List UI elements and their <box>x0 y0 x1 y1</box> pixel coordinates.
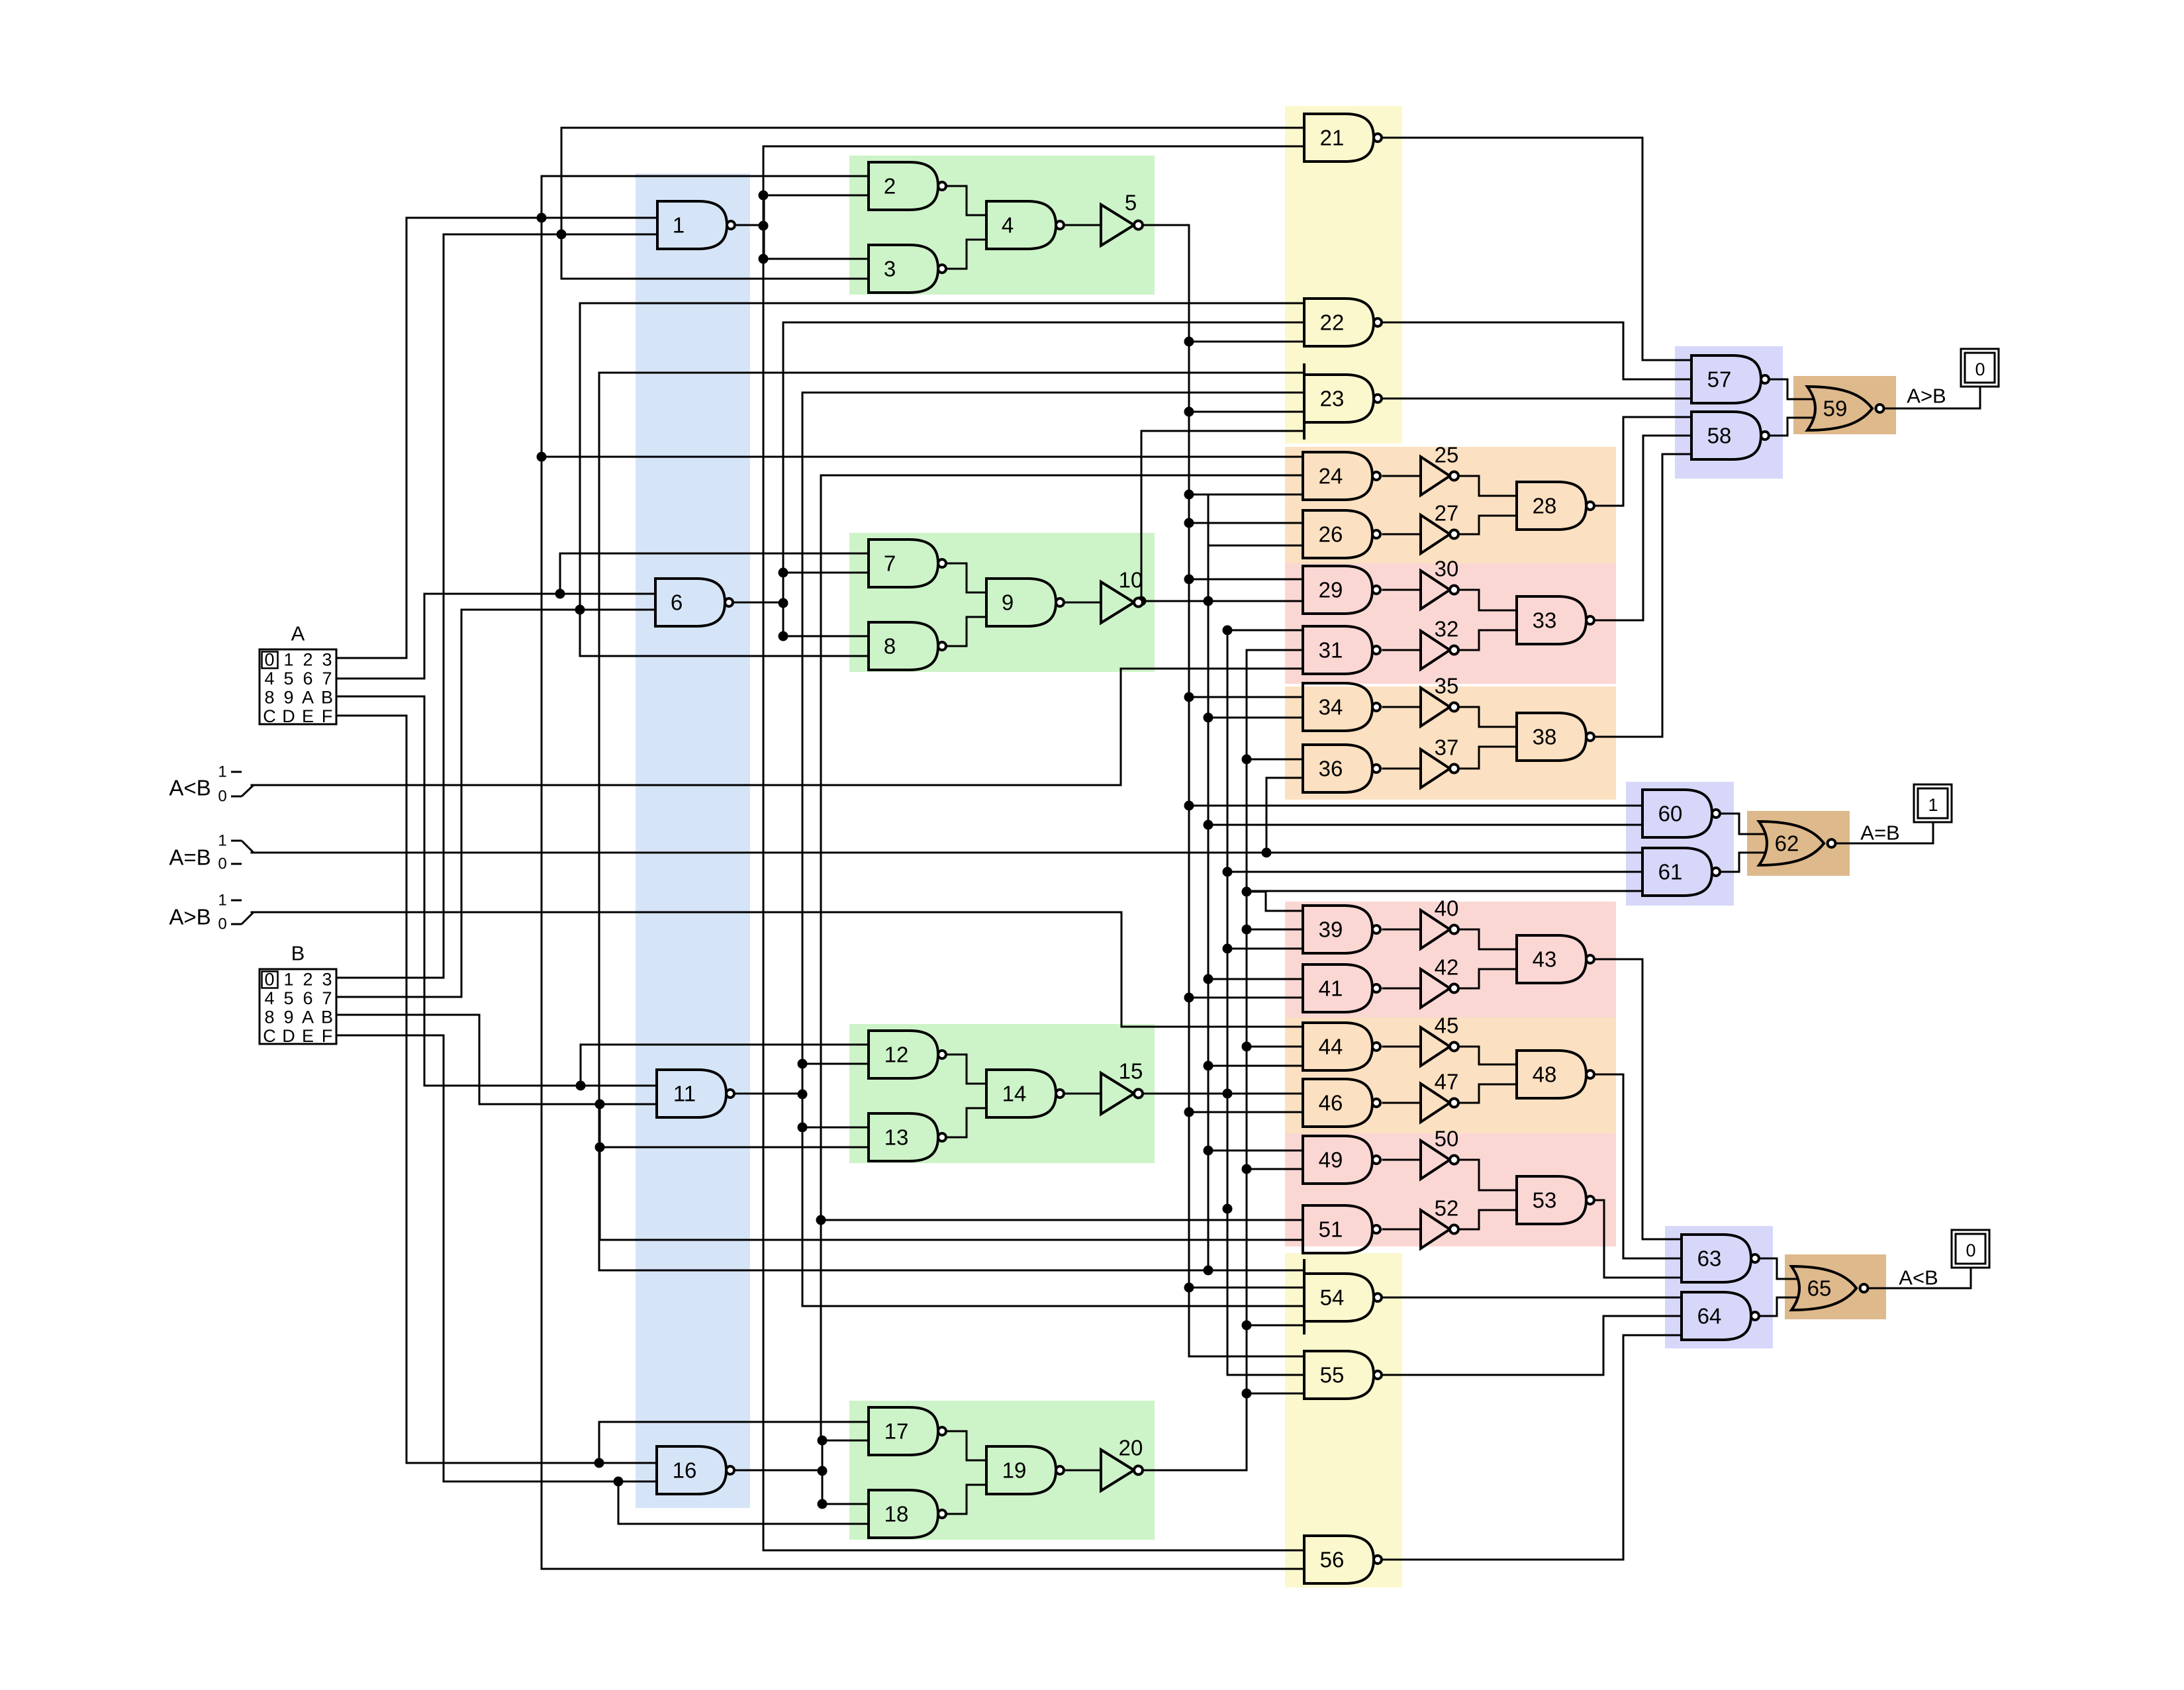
nand gate 6 <box>655 579 733 626</box>
wire bus eq3 (inv 5) <box>1188 225 1190 1356</box>
wire group 24-28 upper inverter jog to combiner <box>1457 476 1517 496</box>
wire bus eq2 (inv 10) <box>1208 494 1210 1270</box>
wire group 24-28 lower inverter jog to combiner <box>1457 516 1517 534</box>
input switch A&lt;B <box>169 763 254 806</box>
wire group 24-28 upper NAND output to inverter <box>1383 475 1421 477</box>
wire combiner output to inverter <box>1062 1470 1101 1472</box>
nand gate 28 <box>1517 482 1594 530</box>
svg-text:9: 9 <box>283 688 293 708</box>
wire wire to gate 55 input 3 <box>1247 1393 1303 1395</box>
svg-text:15: 15 <box>1119 1059 1143 1084</box>
svg-text:57: 57 <box>1707 367 1732 392</box>
wire net gate1-out long vertical (to 21/24/56) <box>763 146 765 1550</box>
nand gate 16 <box>657 1446 734 1494</box>
svg-text:F: F <box>322 706 333 726</box>
inverter gate 15 <box>1101 1059 1143 1115</box>
wire gate 21 output to gate 57 input 1 <box>1382 138 1691 360</box>
nand gate 31 <box>1303 626 1380 674</box>
svg-text:28: 28 <box>1533 494 1557 518</box>
svg-text:11: 11 <box>673 1082 696 1106</box>
wire wire to gate 34 input 2 <box>1208 717 1303 719</box>
nor gate 62 <box>1759 822 1836 865</box>
wire gate 58 output to gate 59 input 2 <box>1769 418 1812 436</box>
wire net B1 to gate 11 input 2 <box>479 1103 657 1105</box>
wire group 49-53 lower NAND output to inverter <box>1383 1229 1421 1231</box>
wire gate 63 output to gate 65 input 1 <box>1759 1258 1796 1279</box>
wire wire to gate 24 input 2 <box>821 475 1303 477</box>
region purple 3 (gates 63-64) <box>1665 1226 1773 1348</box>
svg-text:D: D <box>282 1026 295 1046</box>
wire net A2 branch <box>559 553 561 594</box>
wire wire to gate 22 input 1 <box>580 303 1304 305</box>
wire wire to gate 39 input 3 <box>1227 948 1303 950</box>
wire slice 4 link to lower gate input 1 <box>822 1503 869 1505</box>
wire net B0 branch <box>618 1481 620 1524</box>
nand gate 34 <box>1303 683 1380 731</box>
wire gate 64 output to gate 65 input 2 <box>1759 1297 1796 1316</box>
wire group 29-33 lower NAND output to inverter <box>1383 649 1421 651</box>
wire net B3 branch <box>561 128 563 279</box>
inverter gate 52 <box>1421 1196 1458 1249</box>
nand gate 51 <box>1303 1205 1380 1253</box>
svg-text:5: 5 <box>1125 191 1137 215</box>
wire net A3 to gate 56 input 2 <box>542 1568 1304 1570</box>
wire slice 3 link to upper gate input 2 <box>802 1063 869 1065</box>
nand gate 53 <box>1517 1176 1594 1224</box>
wire wire to gate 23 input 4 <box>1141 430 1304 432</box>
wire net B1 to gate 13 input 2 <box>600 1147 869 1149</box>
nand gate 24 <box>1303 452 1380 500</box>
wire net A>B dropper <box>1121 912 1123 1027</box>
wire wire to gate 24 input 3 <box>1189 494 1303 496</box>
wire gate 57 output to gate 59 input 1 <box>1769 379 1812 399</box>
svg-text:3: 3 <box>884 257 896 281</box>
nand gate 26 <box>1303 510 1380 558</box>
svg-text:2: 2 <box>303 970 312 990</box>
wire slice 4 link vertical <box>822 1440 824 1504</box>
wire keypad A row4 to net A0 <box>336 716 406 1463</box>
wire wire to gate 49 input 2 <box>1247 1168 1303 1170</box>
wire wire to gate 24 input 1 <box>542 456 1303 458</box>
svg-text:38: 38 <box>1533 725 1557 749</box>
wire wire to gate 61 input 3 <box>1247 890 1642 892</box>
nand gate 46 <box>1303 1079 1380 1127</box>
svg-text:0: 0 <box>1975 359 1985 379</box>
nand gate 17 <box>869 1407 946 1455</box>
svg-text:50: 50 <box>1435 1127 1459 1151</box>
svg-text:17: 17 <box>884 1419 909 1444</box>
wire wire to gate 31 input 1 <box>1227 630 1303 632</box>
nand gate 8 <box>869 622 946 670</box>
wire gate 1 output stub <box>732 224 764 226</box>
wire bus eq1 (inv 15) <box>1227 630 1229 1375</box>
wire wire to gate 44 input 2 <box>1247 1046 1303 1048</box>
svg-text:23: 23 <box>1320 387 1345 411</box>
wire wire to gate 49 input 1 <box>1208 1150 1303 1152</box>
svg-text:1: 1 <box>218 763 226 781</box>
inverter gate 45 <box>1421 1013 1458 1066</box>
svg-text:3: 3 <box>322 970 332 990</box>
region purple 2 (gates 60-61) <box>1626 782 1734 906</box>
wire gate 54 output to gate 64 input 1 <box>1382 1297 1682 1299</box>
nand gate 60 <box>1642 790 1720 837</box>
wire gate 55 output to gate 64 input 2 <box>1382 1316 1682 1375</box>
wire wire to gate 51 input 1 <box>821 1219 1303 1221</box>
svg-text:30: 30 <box>1435 557 1459 581</box>
wire keypad A row2 to net A2 <box>336 594 424 679</box>
svg-text:0: 0 <box>1966 1241 1975 1260</box>
nand gate 19 <box>986 1446 1064 1494</box>
wire lower gate output jog <box>943 617 986 646</box>
wire wire to gate 39 input 2 <box>1247 929 1303 931</box>
svg-text:0: 0 <box>264 970 274 990</box>
nand gate 7 <box>869 540 946 587</box>
inverter gate 47 <box>1421 1070 1458 1123</box>
svg-text:A<B: A<B <box>169 776 211 800</box>
svg-text:0: 0 <box>218 855 226 873</box>
region pink group 1 (gates 29-33) <box>1285 563 1616 684</box>
wire wire to gate 34 input 1 <box>1189 696 1303 698</box>
svg-text:34: 34 <box>1319 695 1343 720</box>
nor gate 65 <box>1791 1266 1868 1310</box>
input keypad B <box>260 942 336 1047</box>
region green group 3 (gates 12-15) <box>849 1024 1155 1163</box>
nand gate 11 <box>657 1070 734 1117</box>
wire net B2 to gate 6 input 2 <box>461 609 655 611</box>
wire keypad B row4 to net B0 <box>336 1035 444 1481</box>
wire gate 23 output to gate 57 input 3 <box>1378 398 1691 400</box>
svg-text:C: C <box>263 1026 276 1046</box>
wire net A1 branch <box>580 1045 582 1086</box>
wire net A<B switch wire <box>252 784 1121 786</box>
wire vertical feed gate 23 input 1 / gate 54 input 1 <box>598 373 600 1270</box>
wire combiner output to inverter <box>1062 224 1101 226</box>
svg-text:D: D <box>282 706 295 726</box>
svg-text:9: 9 <box>1002 590 1014 615</box>
wire group 39-43 upper NAND output to inverter <box>1383 929 1421 931</box>
svg-text:2: 2 <box>884 174 896 199</box>
region brown 2 (gate 62) <box>1747 811 1850 876</box>
nand gate 1 <box>657 201 735 249</box>
wire wire to gate 54 input 3 <box>802 1305 1304 1307</box>
wire wire to gate 22 input 2 <box>783 322 1304 324</box>
region yellow bottom (gates 54-56) <box>1285 1253 1402 1587</box>
inverter gate 27 <box>1421 501 1458 554</box>
svg-text:6: 6 <box>303 669 312 688</box>
svg-text:63: 63 <box>1697 1246 1722 1271</box>
svg-text:1: 1 <box>218 832 226 850</box>
svg-text:36: 36 <box>1319 757 1343 781</box>
wire net A<B riser <box>1120 669 1122 785</box>
wire net B2 to gate 8 input 2 <box>580 655 869 657</box>
wire inverter 20 output wire <box>1143 1470 1247 1472</box>
wire wire to gate 61 input 2 <box>1227 871 1642 873</box>
nand gate 54 <box>1304 1259 1382 1335</box>
wire keypad A row1 to net A3 <box>336 218 406 658</box>
wire group 34-38 upper inverter jog to combiner <box>1457 707 1517 727</box>
inverter gate 25 <box>1421 443 1458 496</box>
svg-text:12: 12 <box>884 1043 909 1067</box>
wire combiner output to inverter <box>1062 1093 1101 1095</box>
svg-text:24: 24 <box>1319 464 1343 489</box>
nand gate 63 <box>1682 1235 1759 1282</box>
inverter gate 10 <box>1101 568 1143 624</box>
svg-text:2: 2 <box>303 650 312 670</box>
wire wire to gate 55 input 1 <box>1189 1356 1303 1358</box>
wire slice 3 link to lower gate input 1 <box>802 1127 869 1129</box>
svg-text:13: 13 <box>884 1125 909 1150</box>
svg-text:47: 47 <box>1435 1070 1459 1094</box>
region orange group 2 (gates 34-38) <box>1285 686 1616 800</box>
wire net gate11-out vertical to 23 <box>802 393 804 1306</box>
wire gate 53 output to gate 63 input 3 <box>1595 1200 1682 1278</box>
wire gate 56 output to gate 64 input 3 <box>1382 1335 1682 1560</box>
svg-text:20: 20 <box>1119 1436 1143 1460</box>
input switch A&gt;B <box>169 892 254 933</box>
nand gate 49 <box>1303 1136 1380 1184</box>
wire group 44-48 upper NAND output to inverter <box>1383 1046 1421 1048</box>
svg-text:4: 4 <box>1002 213 1014 238</box>
wire wire to gate 21 input 2 <box>764 146 1304 148</box>
wire slice 2 link to upper gate input 2 <box>783 572 869 574</box>
svg-text:9: 9 <box>283 1008 293 1027</box>
svg-text:4: 4 <box>264 988 274 1008</box>
svg-text:49: 49 <box>1319 1148 1343 1172</box>
wire group 34-38 lower inverter jog to combiner <box>1457 747 1517 769</box>
region orange group 1 (gates 24-28) <box>1285 447 1616 563</box>
label A&lt;B output <box>1899 1266 1938 1290</box>
svg-text:A: A <box>291 622 305 645</box>
svg-text:1: 1 <box>673 213 685 238</box>
wire wire eq0 jog to gate 39 input 1 <box>1247 892 1303 911</box>
wire wire to gate 44 input 3 <box>1208 1065 1303 1067</box>
region brown 1 (gate 59) <box>1793 376 1896 434</box>
svg-text:B: B <box>321 1008 333 1027</box>
wire group 29-33 upper NAND output to inverter <box>1383 589 1421 591</box>
wire net A0 branch <box>598 1422 600 1463</box>
wire net B0 to gate 16 input 2 <box>444 1481 657 1483</box>
wire bus A=B lane <box>1266 778 1268 853</box>
svg-text:27: 27 <box>1435 501 1459 526</box>
svg-text:5: 5 <box>283 669 293 688</box>
inverter gate 30 <box>1421 557 1458 610</box>
inverter gate 50 <box>1421 1127 1458 1180</box>
svg-text:E: E <box>302 1026 314 1046</box>
wire slice 2 link vertical <box>783 573 784 636</box>
wire upper gate output jog <box>943 563 986 592</box>
inverter gate 5 <box>1101 191 1143 246</box>
wire gate 38 output to gate 58 input 3 <box>1595 454 1691 737</box>
wire net B2 branch / gate 22 feed <box>579 303 581 656</box>
wire wire to gate 56 input 1 <box>764 1550 1304 1552</box>
svg-text:1: 1 <box>283 970 293 990</box>
wire wire to gate 23 input 2 <box>802 392 1304 394</box>
wire group 24-28 lower NAND output to inverter <box>1383 534 1421 536</box>
svg-text:19: 19 <box>1002 1458 1027 1483</box>
svg-text:F: F <box>322 1026 333 1046</box>
wire group 39-43 upper inverter jog to combiner <box>1457 929 1517 949</box>
wire gate 43 output to gate 63 input 1 <box>1595 959 1682 1239</box>
svg-text:22: 22 <box>1320 310 1345 335</box>
svg-text:60: 60 <box>1658 802 1683 826</box>
wire combiner output to inverter <box>1062 602 1101 604</box>
svg-text:16: 16 <box>673 1458 697 1483</box>
svg-text:A>B: A>B <box>169 905 211 929</box>
svg-text:56: 56 <box>1320 1548 1345 1572</box>
wire net gate6-out vertical to 22 <box>783 322 784 636</box>
nand gate 21 <box>1304 114 1382 162</box>
nand gate 64 <box>1682 1292 1759 1340</box>
wire wire to gate 60 input 2 <box>1208 824 1642 826</box>
nand gate 55 <box>1304 1351 1382 1399</box>
wire wire to gate 36 input 1 <box>1247 759 1303 761</box>
wire wire to gate 54 input 2 <box>1189 1287 1304 1289</box>
wire wire to gate 41 input 2 <box>1189 997 1303 999</box>
svg-text:42: 42 <box>1435 955 1459 980</box>
nor gate 59 <box>1807 387 1884 430</box>
wire net B3 to gate 21 input 1 <box>561 127 1304 129</box>
svg-text:E: E <box>302 706 314 726</box>
wire net A3 to gate 2 input 1 <box>542 175 869 177</box>
nand gate 18 <box>869 1490 946 1538</box>
wire net A3 branch up <box>541 176 543 1569</box>
wire wire to gate 31 input 2 <box>1247 649 1303 651</box>
wire wire to gate 26 input 2 <box>1208 545 1303 547</box>
svg-text:A<B: A<B <box>1899 1266 1938 1290</box>
nand gate 4 <box>986 201 1064 249</box>
wire keypad B row1 to net B3 <box>336 234 444 978</box>
output indicator A&lt;B value 0 <box>1952 1230 1989 1268</box>
svg-text:A: A <box>302 688 314 708</box>
inverter gate 20 <box>1101 1436 1143 1491</box>
svg-text:18: 18 <box>884 1502 909 1526</box>
nand gate 13 <box>869 1113 946 1161</box>
wire group 39-43 lower inverter jog to combiner <box>1457 969 1517 988</box>
nand gate 41 <box>1303 964 1380 1012</box>
wire wire to gate 60 input 1 <box>1189 805 1642 807</box>
svg-text:C: C <box>263 706 276 726</box>
nand gate 29 <box>1303 566 1380 614</box>
nand gate 23 <box>1304 363 1382 440</box>
wire group 29-33 upper inverter jog to combiner <box>1457 590 1517 610</box>
wire lower gate output jog <box>943 240 986 269</box>
wire wire to gate 41 input 1 <box>1208 978 1303 980</box>
output indicator A=B value 1 <box>1914 784 1952 822</box>
wire gate 61 output to gate 62 input 2 <box>1721 853 1764 872</box>
svg-text:43: 43 <box>1533 947 1557 972</box>
svg-text:A: A <box>302 1008 314 1027</box>
nand gate 22 <box>1304 299 1382 346</box>
svg-text:0: 0 <box>218 788 226 806</box>
wire inverter 5 output wire <box>1143 224 1189 226</box>
wire group 44-48 lower NAND output to inverter <box>1383 1102 1421 1104</box>
wire wire to gate 29 input 1 <box>1189 579 1303 581</box>
svg-text:14: 14 <box>1002 1082 1027 1106</box>
nand gate 48 <box>1517 1051 1594 1098</box>
wire net A2 to gate 7 input 1 <box>560 553 869 555</box>
wire net A0 to gate 17 input 1 <box>599 1421 869 1423</box>
svg-text:46: 46 <box>1319 1091 1343 1115</box>
svg-text:0: 0 <box>264 650 274 670</box>
wire net B1 branch <box>599 1104 601 1240</box>
svg-text:5: 5 <box>283 988 293 1008</box>
nand gate 38 <box>1517 713 1594 761</box>
nand gate 33 <box>1517 596 1594 644</box>
svg-text:3: 3 <box>322 650 332 670</box>
wire group 34-38 lower NAND output to inverter <box>1383 768 1421 770</box>
wire upper gate output jog <box>943 186 986 215</box>
svg-text:1: 1 <box>218 892 226 910</box>
inverter gate 37 <box>1421 735 1458 788</box>
svg-text:61: 61 <box>1658 860 1683 884</box>
wire wire to gate 51 input 2 <box>600 1239 1303 1241</box>
wire wire to gate 23 input 1 <box>599 372 1304 374</box>
wire net A=B switch wire to gate 61 input 1 <box>252 852 1642 854</box>
svg-text:65: 65 <box>1807 1276 1832 1301</box>
wire net A1 to gate 11 input 1 <box>424 1085 657 1087</box>
wire eq2 branch up to gate 23 input 4 <box>1141 431 1143 601</box>
region pink group 3 (gates 49-53) <box>1285 1133 1616 1246</box>
wire gate 28 output to gate 58 input 1 <box>1595 417 1691 506</box>
wire upper gate output jog <box>943 1055 986 1084</box>
nand gate 56 <box>1304 1536 1382 1583</box>
wire group 49-53 upper inverter jog to combiner <box>1457 1160 1517 1190</box>
svg-text:54: 54 <box>1320 1286 1345 1310</box>
region green group 1 (gates 2-5) <box>849 156 1155 295</box>
svg-text:8: 8 <box>884 634 896 659</box>
svg-text:32: 32 <box>1435 617 1459 641</box>
svg-text:53: 53 <box>1533 1188 1557 1213</box>
svg-text:58: 58 <box>1707 424 1732 448</box>
svg-text:8: 8 <box>264 1008 274 1027</box>
wire lower gate output jog <box>943 1108 986 1137</box>
region yellow top (gates 21-23) <box>1285 106 1402 444</box>
nand gate 58 <box>1691 412 1769 459</box>
wire gate 65 output to indicator <box>1868 1268 1971 1288</box>
svg-text:31: 31 <box>1319 638 1343 663</box>
svg-text:1: 1 <box>283 650 293 670</box>
inverter gate 35 <box>1421 674 1458 727</box>
wire gate 16 output stub <box>732 1470 822 1472</box>
wire upper gate output jog <box>943 1431 986 1460</box>
wire inverter 10 output to gate 29 input 2 <box>1143 600 1303 602</box>
wire wire to gate 54 input 1 <box>599 1270 1304 1272</box>
nand gate 61 <box>1642 848 1720 896</box>
svg-text:21: 21 <box>1320 126 1345 150</box>
label A&gt;B output <box>1907 385 1946 408</box>
wire feed gate 24 input 2 / 51 input 1 <box>820 475 822 1442</box>
wire slice 4 link to upper gate input 2 <box>822 1440 869 1442</box>
wire wire to gate 26 input 1 <box>1189 522 1303 524</box>
inverter gate 40 <box>1421 896 1458 949</box>
svg-text:A>B: A>B <box>1907 385 1946 408</box>
svg-text:35: 35 <box>1435 674 1459 698</box>
svg-text:6: 6 <box>303 988 312 1008</box>
wire net B3 to gate 3 input 2 <box>561 278 869 280</box>
svg-text:45: 45 <box>1435 1013 1459 1038</box>
nand gate 3 <box>869 245 946 293</box>
input keypad A <box>260 622 336 727</box>
wire slice 1 link to upper gate input 2 <box>764 195 869 197</box>
svg-text:55: 55 <box>1320 1363 1345 1387</box>
wire wire to gate 23 input 3 <box>1189 411 1304 413</box>
nand gate 12 <box>869 1031 946 1078</box>
wire group 29-33 lower inverter jog to combiner <box>1457 630 1517 650</box>
wire wire to gate 22 input 3 <box>1189 341 1304 343</box>
svg-text:8: 8 <box>264 688 274 708</box>
svg-text:A=B: A=B <box>169 845 211 870</box>
svg-text:7: 7 <box>884 551 896 576</box>
